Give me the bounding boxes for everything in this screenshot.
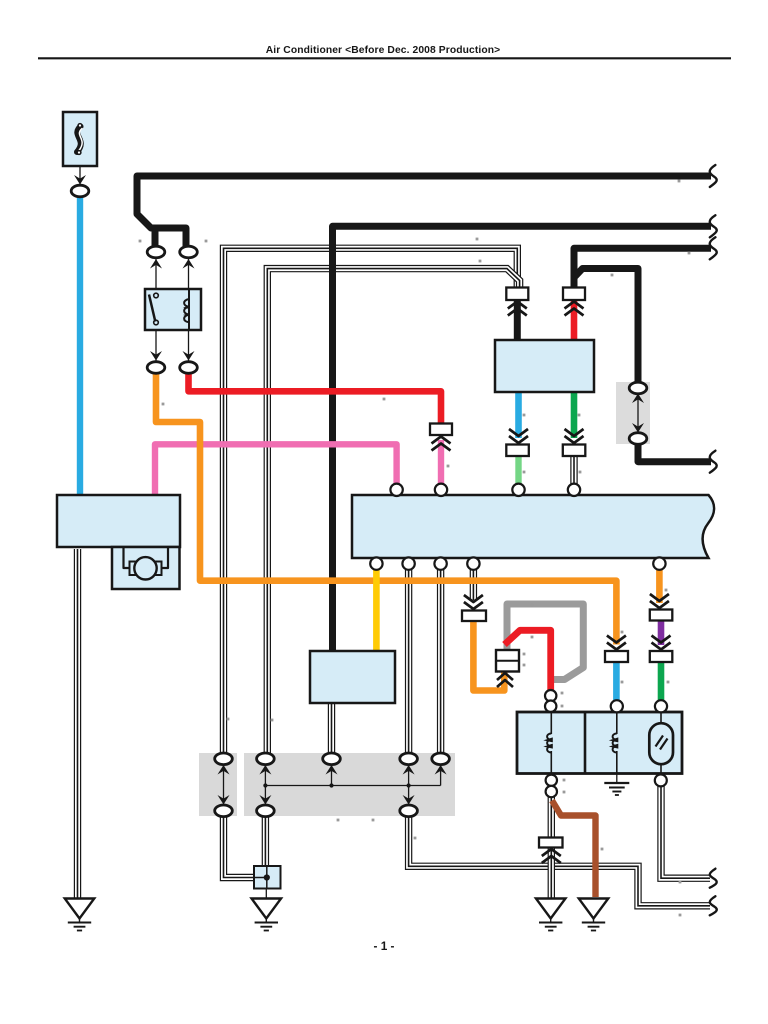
svg-text:- 1 -: - 1 -: [374, 939, 395, 953]
svg-text:Air Conditioner <Before Dec. 2: Air Conditioner <Before Dec. 2008 Produc…: [266, 45, 501, 56]
